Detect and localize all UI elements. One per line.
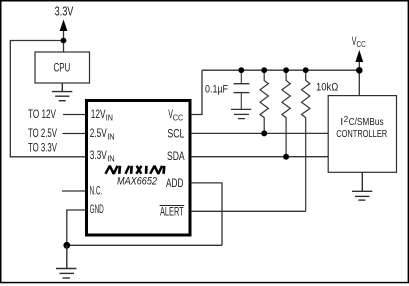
svg-text:IN: IN [106, 113, 113, 123]
wire: VCC pin up to rail [190, 70, 202, 114]
wire: TO 12V stub [63, 114, 86, 116]
svg-text:N.C.: N.C. [90, 186, 103, 198]
wire: VCC node down into controller [358, 70, 360, 95]
CPU box U2 [35, 52, 90, 83]
wire: N.C. stub [62, 190, 86, 192]
node: rail-C1 junction dot [238, 67, 244, 73]
svg-text:SCL: SCL [167, 129, 184, 141]
wire: VCC arrow stem [358, 62, 360, 70]
svg-text:3.3V: 3.3V [55, 5, 74, 19]
wire: GND pin to ground node [67, 210, 86, 245]
svg-text:CPU: CPU [54, 61, 71, 75]
ground under CPU [52, 83, 72, 101]
wire: TO 2.5V stub [63, 133, 87, 135]
svg-text:CC: CC [357, 39, 366, 49]
wire: SDA line [190, 156, 328, 158]
svg-text:TO 12V: TO 12V [28, 107, 57, 121]
svg-text:CC: CC [173, 113, 183, 123]
svg-text:C/SMBus: C/SMBus [349, 116, 384, 128]
svg-text:SDA: SDA [167, 151, 185, 163]
resistor R3 10k [302, 70, 310, 211]
svg-text:3.3V: 3.3V [90, 150, 107, 162]
node: rail-R3 junction dot [303, 67, 309, 73]
svg-text:ADD: ADD [166, 178, 183, 190]
ground under controller [352, 172, 372, 200]
resistor R2 10k [282, 70, 290, 157]
node: R2-SDA junction dot [283, 154, 289, 160]
ground under C1 [231, 109, 251, 118]
node: R1-SCL junction dot [261, 130, 267, 136]
svg-text:TO 3.3V: TO 3.3V [28, 141, 58, 155]
node: GND junction dot [63, 242, 70, 249]
power arrow VCC [355, 50, 363, 62]
MAXIM logo [106, 166, 165, 174]
svg-text:IN: IN [107, 131, 115, 141]
node: VCC junction dot [356, 67, 363, 74]
resistor R1 10k [260, 70, 268, 133]
svg-text:MAX6652: MAX6652 [117, 176, 157, 188]
IC U1 MAX6652 [87, 101, 191, 236]
wire: VCC rail [202, 69, 359, 71]
wire: ADD pin right and down [190, 183, 222, 245]
power arrow 3.3V [60, 20, 68, 32]
svg-text:TO 2.5V: TO 2.5V [28, 126, 58, 140]
svg-text:10kΩ: 10kΩ [316, 82, 338, 94]
capacitor C1 0.1uF [234, 70, 250, 109]
wire: SCL line [190, 132, 328, 134]
svg-text:0.1µF: 0.1µF [205, 84, 228, 96]
node: rail-R2 junction dot [283, 67, 289, 73]
node: rail-R1 junction dot [261, 67, 267, 73]
wire: ground node to ADD loop bottom [67, 244, 222, 246]
svg-text:CONTROLLER: CONTROLLER [336, 128, 387, 140]
svg-text:2.5V: 2.5V [90, 128, 107, 140]
svg-text:IN: IN [107, 153, 115, 163]
ground under GND node [56, 245, 76, 278]
wire: 3.3V arrow stem to CPU top [63, 31, 65, 53]
wire: 3.3V node left and down to 3.3VIN pin [10, 41, 86, 157]
node: 3.3V junction dot [61, 38, 67, 44]
wire: ALERT line to R3 [190, 210, 306, 212]
svg-text:12V: 12V [91, 109, 106, 121]
svg-text:ALERT: ALERT [160, 206, 184, 218]
controller box U3 [328, 96, 396, 173]
svg-text:GND: GND [90, 204, 104, 216]
